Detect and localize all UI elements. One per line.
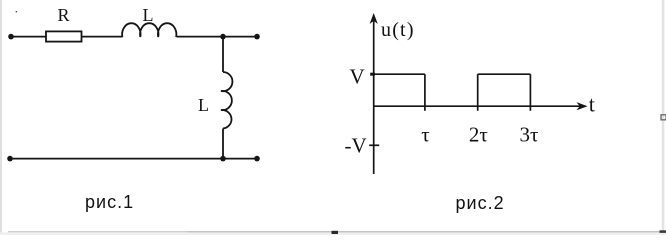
svg-text:рис.2: рис.2 bbox=[456, 193, 505, 213]
svg-text:V: V bbox=[350, 65, 365, 89]
pulse 2 falling edge / tick 3tau bbox=[529, 74, 531, 111]
svg-text:3τ: 3τ bbox=[520, 123, 539, 147]
wire resistor to inductor bbox=[82, 36, 123, 38]
tick V bbox=[370, 73, 375, 76]
svg-text:τ: τ bbox=[421, 123, 429, 147]
wire inductor to bottom node bbox=[222, 129, 224, 159]
y-axis u(t) bbox=[373, 17, 375, 174]
bottom gray band bbox=[0, 232, 666, 235]
svg-text:L: L bbox=[143, 5, 154, 25]
svg-text:R: R bbox=[57, 5, 69, 25]
terminal node bottom-right bbox=[254, 156, 260, 162]
inductor L series bbox=[122, 23, 176, 37]
y-axis arrowhead bbox=[370, 13, 378, 24]
pulse 2 rising edge / tick 2tau bbox=[477, 74, 479, 111]
wire top-left segment bbox=[11, 36, 46, 38]
pulse 1 top bbox=[374, 73, 425, 75]
node A junction top bbox=[220, 34, 226, 40]
wire bottom bbox=[10, 158, 257, 160]
svg-text:рис.1: рис.1 bbox=[85, 192, 134, 212]
wire vertical from node A bbox=[222, 37, 224, 72]
terminal node top-left bbox=[8, 34, 14, 40]
terminal node bottom-left bbox=[7, 156, 13, 162]
t-axis arrowhead bbox=[577, 102, 588, 110]
bottom-right corner mark bbox=[660, 230, 666, 233]
node B junction bottom bbox=[220, 156, 226, 162]
inductor L shunt bbox=[221, 72, 232, 129]
pulse 2 top bbox=[478, 73, 531, 75]
svg-text:u(t): u(t) bbox=[381, 19, 415, 41]
left edge shadow strip bbox=[0, 0, 2, 235]
right scrollbar thumb bbox=[661, 115, 666, 120]
bottom scrollbar thumb bbox=[332, 231, 339, 234]
t-axis bbox=[374, 105, 584, 107]
svg-text:L: L bbox=[198, 95, 209, 115]
svg-text:t: t bbox=[589, 92, 595, 117]
pulse 1 falling edge / tick tau bbox=[424, 74, 426, 111]
tick -V bbox=[369, 144, 379, 146]
wire inductor to right terminal bbox=[177, 36, 258, 38]
resistor R bbox=[46, 31, 82, 41]
svg-text:-V: -V bbox=[345, 134, 367, 158]
terminal node top-right bbox=[254, 34, 260, 40]
speck dot bbox=[16, 11, 17, 12]
bottom divider line bbox=[8, 231, 666, 232]
svg-text:2τ: 2τ bbox=[469, 123, 488, 147]
right scrollbar track bbox=[662, 0, 665, 231]
